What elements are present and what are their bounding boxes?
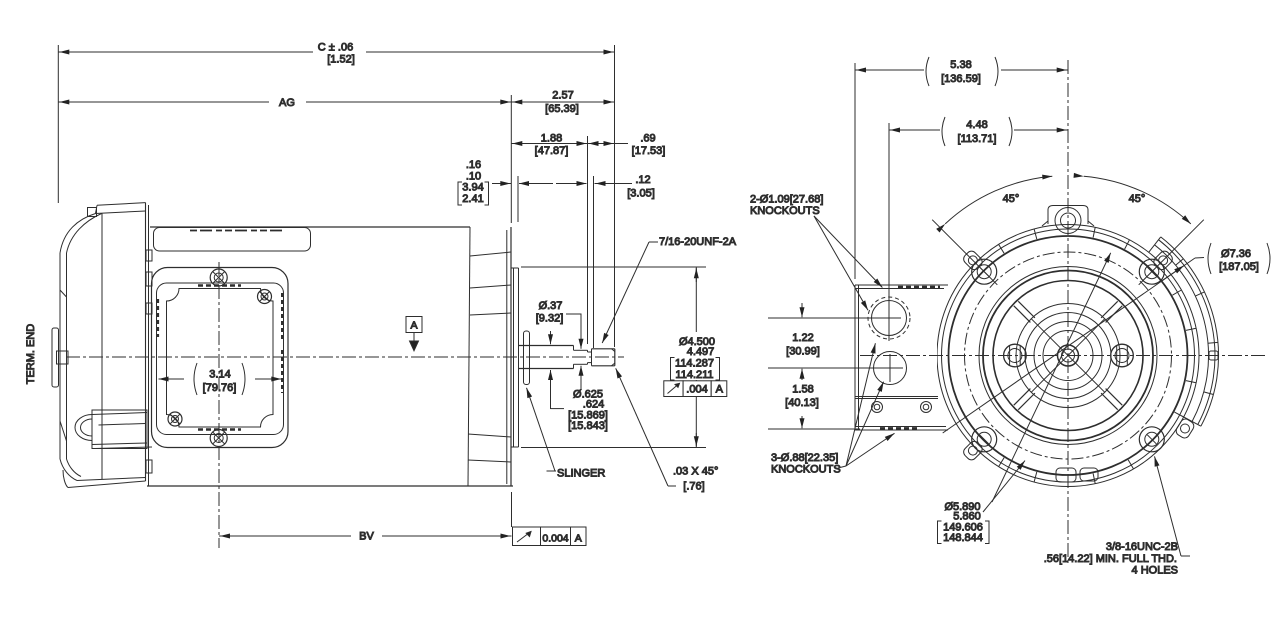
svg-text:Ø7.36: Ø7.36: [1221, 248, 1251, 260]
svg-text:.12: .12: [635, 174, 650, 186]
svg-text:.03 X 45°: .03 X 45°: [673, 466, 718, 478]
svg-text:4 HOLES: 4 HOLES: [1132, 565, 1178, 577]
svg-text:1.88: 1.88: [541, 133, 562, 145]
svg-text:[187.05]: [187.05]: [1219, 261, 1259, 273]
svg-text:[65.39]: [65.39]: [545, 103, 579, 115]
svg-text:.004: .004: [686, 384, 707, 396]
svg-text:[30.99]: [30.99]: [786, 346, 820, 358]
svg-text:2.57: 2.57: [552, 90, 573, 102]
svg-text:148.844: 148.844: [943, 532, 983, 544]
svg-text:3.94: 3.94: [462, 182, 483, 194]
svg-text:[113.71]: [113.71]: [958, 133, 997, 145]
svg-text:Ø.37: Ø.37: [539, 300, 563, 312]
svg-text:A: A: [410, 320, 417, 332]
svg-text:BV: BV: [359, 531, 374, 543]
svg-text:[9.32]: [9.32]: [536, 313, 564, 325]
svg-text:45°: 45°: [1003, 193, 1020, 205]
svg-text:[.76]: [.76]: [683, 481, 704, 493]
svg-text:KNOCKOUTS: KNOCKOUTS: [750, 205, 820, 217]
svg-text:4.497: 4.497: [687, 346, 715, 358]
svg-text:[40.13]: [40.13]: [785, 397, 819, 409]
svg-text:45°: 45°: [1129, 193, 1146, 205]
svg-text:1.22: 1.22: [792, 332, 813, 344]
svg-text:5.38: 5.38: [950, 59, 971, 71]
svg-text:[1.52]: [1.52]: [327, 54, 355, 66]
svg-text:.56[14.22] MIN. FULL THD.: .56[14.22] MIN. FULL THD.: [1044, 553, 1177, 565]
svg-text:C ± .06: C ± .06: [318, 42, 353, 54]
svg-text:2-Ø1.09[27.68]: 2-Ø1.09[27.68]: [750, 194, 823, 206]
svg-text:[17.53]: [17.53]: [632, 145, 666, 157]
svg-text:3/8-16UNC-2B: 3/8-16UNC-2B: [1106, 541, 1178, 553]
svg-text:7/16-20UNF-2A: 7/16-20UNF-2A: [659, 236, 737, 248]
svg-text:[47.87]: [47.87]: [535, 145, 569, 157]
svg-text:1.58: 1.58: [792, 384, 813, 396]
svg-text:[136.59]: [136.59]: [941, 73, 981, 85]
svg-text:TERM. END: TERM. END: [25, 324, 37, 385]
svg-text:0.004: 0.004: [542, 533, 568, 545]
svg-text:[79.76]: [79.76]: [203, 382, 237, 394]
svg-text:AG: AG: [279, 97, 295, 109]
svg-text:A: A: [716, 384, 724, 396]
svg-text:SLINGER: SLINGER: [557, 468, 605, 480]
svg-text:[15.843]: [15.843]: [568, 420, 608, 432]
svg-text:[3.05]: [3.05]: [627, 188, 655, 200]
svg-text:KNOCKOUTS: KNOCKOUTS: [771, 464, 841, 476]
svg-text:A: A: [575, 533, 582, 545]
svg-text:3.14: 3.14: [209, 369, 230, 381]
svg-text:114.211: 114.211: [675, 369, 713, 381]
svg-text:.69: .69: [640, 133, 655, 145]
svg-text:2.41: 2.41: [462, 193, 483, 205]
svg-text:114.287: 114.287: [675, 358, 714, 370]
svg-text:3-Ø.88[22.35]: 3-Ø.88[22.35]: [771, 452, 838, 464]
svg-text:.16: .16: [466, 159, 481, 171]
svg-text:4.48: 4.48: [966, 119, 987, 131]
